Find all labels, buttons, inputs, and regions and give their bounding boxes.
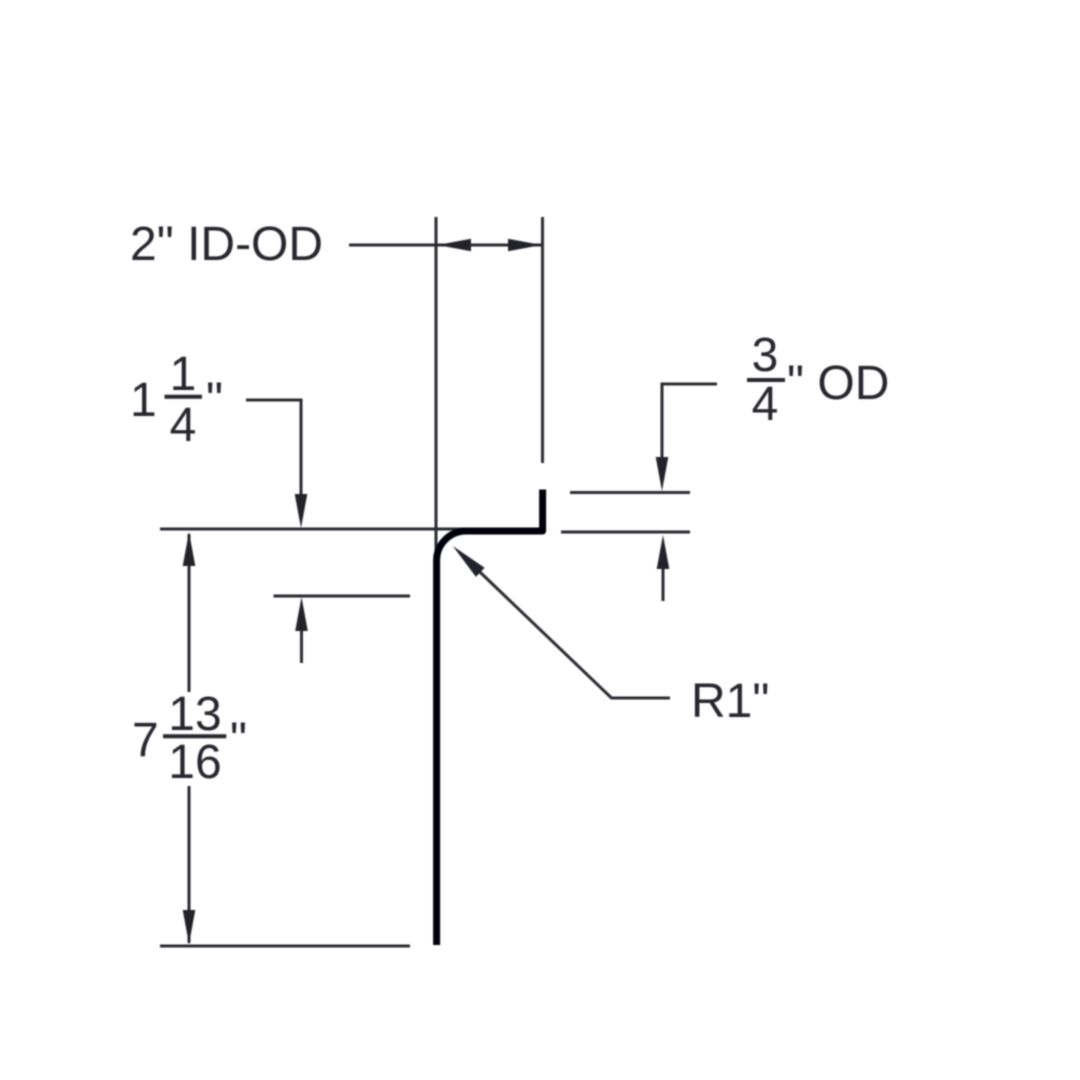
- svg-text:1: 1: [170, 348, 197, 401]
- wire: top surface extension line: [160, 528, 468, 531]
- svg-text:": ": [230, 714, 247, 767]
- wire: right extension line of 2" dimension: [541, 217, 544, 463]
- label: 3/4" OD: [752, 329, 890, 431]
- arrowhead: 7 13/16" bottom arrow: [183, 910, 196, 944]
- wire: leader for 1 1/4" label: [246, 400, 301, 497]
- label: 7 13/16": [132, 688, 247, 789]
- arrowhead: 1 1/4" up arrow: [295, 597, 308, 631]
- wire: lower extension line of 3/4" OD dimension: [561, 531, 690, 534]
- wire: upper part of 7 13/16" dimension line: [188, 534, 191, 692]
- arrowhead: 2" dimension left: [438, 239, 472, 251]
- label: 1 1/4": [130, 348, 223, 452]
- svg-text:13: 13: [168, 688, 221, 741]
- svg-text:R1": R1": [691, 675, 769, 728]
- svg-text:16: 16: [168, 736, 221, 789]
- wire: upper extension line of 3/4" OD dimension: [570, 491, 690, 494]
- svg-text:3: 3: [752, 329, 779, 382]
- arrowhead: 3/4" bottom arrow: [657, 535, 670, 569]
- svg-text:4: 4: [752, 378, 779, 431]
- wire: left extension line of 2" dimension: [435, 217, 438, 561]
- fraction bar of 3/4: [747, 378, 785, 382]
- wire: bottom extension line: [160, 945, 410, 948]
- svg-text:": ": [206, 374, 223, 427]
- wire: lower extension line of 1 1/4" dimension: [274, 595, 411, 598]
- svg-text:2" ID-OD: 2" ID-OD: [130, 218, 323, 271]
- fraction bar of 1/4: [165, 395, 203, 399]
- arrowhead: 1 1/4" down arrow: [295, 494, 308, 528]
- arrowhead: 3/4" top arrow: [656, 457, 669, 491]
- svg-text:1: 1: [130, 374, 157, 427]
- profile: thick bent-sheet cross-section: [437, 490, 543, 946]
- wire: shaft of up arrow under 1 1/4" line: [300, 629, 303, 663]
- wire: shaft of lower 3/4" arrow: [662, 567, 665, 601]
- arrowhead: 2" dimension right: [508, 239, 542, 251]
- wire: leader from 3/4" OD label: [662, 384, 717, 460]
- wire: leader+dimension line for 2" ID-OD: [349, 244, 542, 247]
- wire: leader for R1" label: [459, 552, 670, 698]
- svg-text:7: 7: [132, 714, 159, 767]
- fraction bar of 13/16: [163, 734, 226, 738]
- arrowhead: R1" leader arrow: [453, 546, 485, 577]
- arrowhead: 7 13/16" top arrow: [183, 532, 196, 566]
- svg-text:4: 4: [170, 399, 197, 452]
- wire: lower part of 7 13/16" dimension line: [188, 786, 191, 943]
- svg-text:" OD: " OD: [787, 357, 889, 410]
